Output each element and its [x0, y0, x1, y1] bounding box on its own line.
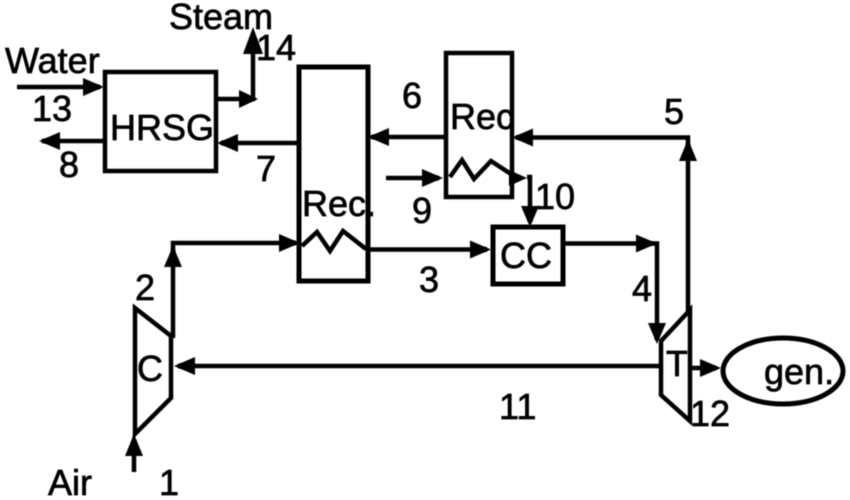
wire 8 exhaust out [42, 139, 106, 144]
svg-text:Air: Air [48, 462, 92, 500]
wire 2 compressor to Rec1 [173, 243, 296, 338]
arrowhead 9 into Rec2 [422, 169, 443, 187]
arrowhead 11 into compressor [174, 357, 195, 375]
svg-text:Rec.: Rec. [302, 183, 376, 224]
arrowhead 2 into Rec1 [279, 234, 300, 252]
recuperator Rec1 box (tall) [299, 67, 368, 281]
turbine T trapezoid [661, 310, 690, 421]
Rec2 zigzag coil [450, 160, 514, 179]
arrowhead 12 into generator [700, 359, 721, 377]
arrowhead 10 out of Rec2 coil [509, 170, 527, 186]
wire steam outlet horizontal [216, 97, 250, 102]
svg-text:14: 14 [256, 27, 296, 68]
arrowhead 6 into Rec1 [368, 128, 389, 146]
arrowhead steam junction [239, 90, 258, 108]
arrowhead 7 into HRSG [217, 134, 238, 152]
arrowhead 5 up at corner [679, 139, 697, 161]
svg-text:CC: CC [500, 235, 552, 276]
wire 4 CC to turbine [563, 244, 657, 341]
wire 7 Rec1 to HRSG [221, 141, 299, 146]
arrowhead 4 into turbine [648, 323, 666, 344]
svg-text:Water: Water [5, 40, 100, 81]
svg-text:Rec: Rec [450, 96, 514, 137]
arrowhead 1 air up [125, 434, 143, 456]
svg-text:13: 13 [32, 88, 72, 129]
svg-text:1: 1 [159, 462, 179, 500]
svg-text:HRSG: HRSG [110, 107, 214, 148]
wire 6 Rec2 to Rec1 [371, 135, 446, 140]
svg-text:C: C [137, 348, 163, 389]
arrowhead 13 into HRSG [83, 78, 104, 96]
wire 9 fuel into Rec2 [386, 176, 439, 181]
arrowhead 14 steam up [243, 27, 263, 54]
svg-text:2: 2 [135, 267, 155, 308]
wire 13 water inlet [17, 85, 100, 90]
svg-text:3: 3 [419, 259, 439, 300]
wire 5 turbine exhaust to Rec2 [516, 138, 688, 313]
wire 11 turbine to compressor (shaft) [178, 364, 661, 369]
combustion chamber CC box [493, 227, 563, 284]
svg-text:6: 6 [402, 75, 422, 116]
arrowhead 5 into Rec2 [512, 129, 533, 147]
compressor C trapezoid [135, 308, 171, 434]
svg-text:12: 12 [690, 393, 730, 434]
svg-text:7: 7 [256, 148, 276, 189]
svg-text:T: T [666, 343, 688, 384]
wire 10 Rec2 to CC [527, 177, 530, 222]
svg-text:10: 10 [535, 176, 575, 217]
generator ellipse [723, 338, 843, 404]
arrowhead 3 into CC [470, 241, 491, 259]
svg-text:gen.: gen. [764, 351, 834, 392]
wire 12 turbine to generator [690, 366, 716, 371]
wire 3 Rec1 to CC [368, 247, 487, 252]
arrowhead 4 right at corner [636, 235, 657, 253]
Rec1 zigzag coil [302, 231, 366, 251]
HRSG box [105, 72, 216, 171]
wire 1 air inlet [132, 440, 137, 472]
recuperator Rec2 box [446, 53, 512, 197]
svg-text:4: 4 [632, 268, 652, 309]
arrowhead 8 out left [39, 132, 60, 150]
svg-text:8: 8 [59, 144, 79, 185]
svg-text:5: 5 [664, 91, 684, 132]
svg-text:9: 9 [412, 190, 432, 231]
svg-text:11: 11 [499, 386, 536, 427]
wire 14 steam outlet vertical [251, 45, 256, 101]
arrowhead 2 up [164, 246, 182, 267]
arrowhead 10 into CC [521, 206, 539, 227]
